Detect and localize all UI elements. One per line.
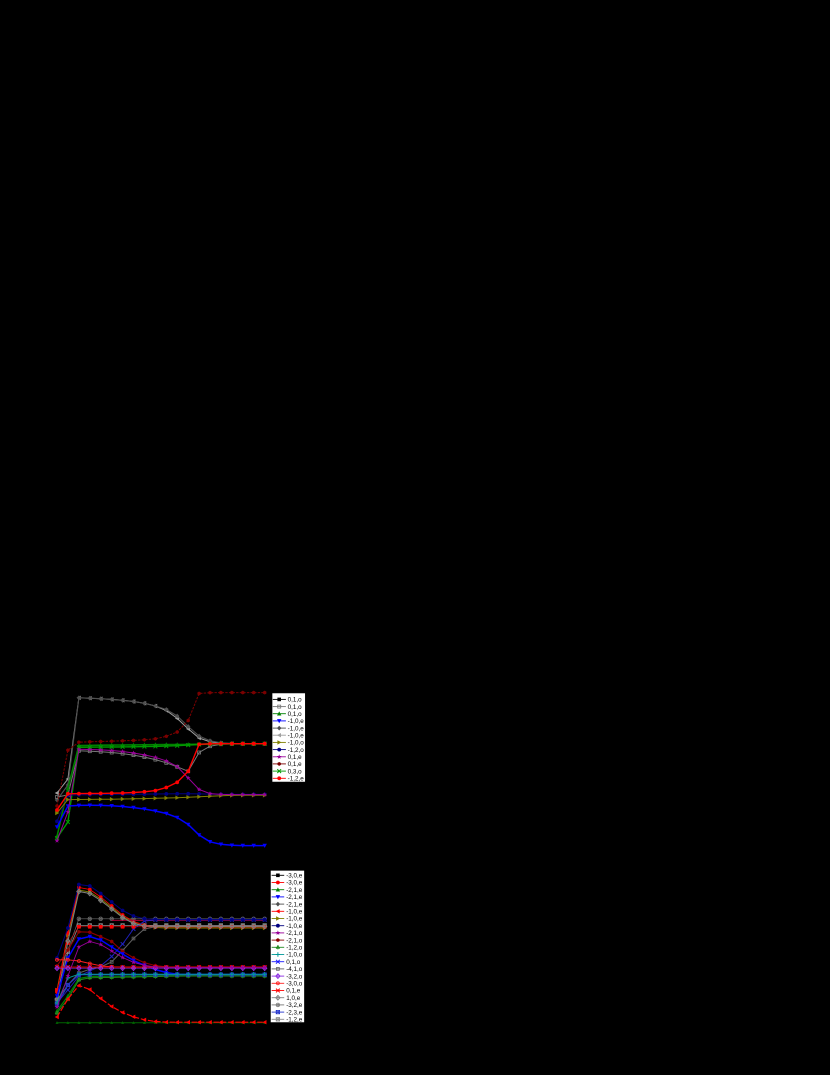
svg-text:-3,0,e: -3,0,e [286,873,303,880]
curve -1,0,e silver left triangle [55,696,267,796]
chart1 legend entry 0,1,o [273,711,302,718]
chart2 legend entry -2,1,o [272,937,303,944]
curve 0,1,o blue x [55,918,267,1005]
svg-text:-1,0,e: -1,0,e [288,725,305,732]
svg-text:0,1,o: 0,1,o [286,959,301,966]
chart1 legend entry -1,2,e [273,776,304,783]
curve -1,0,e olive right triangle c2 [55,888,267,992]
curve 0,1,e red x c2 [55,965,267,969]
svg-text:-1,2,o: -1,2,o [286,945,303,952]
chart1 legend entry -1,0,e [273,718,304,725]
curve -3,0,e red circle c2 [55,886,267,994]
svg-text:-2,1,o: -2,1,o [286,937,303,944]
svg-text:0,3,o: 0,3,o [288,768,303,775]
chart2 legend entry -1,2,e [272,1017,303,1024]
chart1 legend box [272,693,305,782]
curve -2,3,e blue square-x [55,973,266,1007]
chart2 legend entry -2,1,e [272,887,303,894]
svg-text:0,1,o: 0,1,o [288,697,303,704]
svg-text:-2,1,e: -2,1,e [286,901,303,908]
curve -3,0,e red squares [55,925,266,992]
svg-text:-2,1,o: -2,1,o [286,930,303,937]
chart2 legend entry 1,0,e [272,995,301,1002]
chart2 legend entry -2,1,o [272,930,303,937]
curve -3,2,o violet diamond-plus [55,966,267,971]
curve 0,1,o green triangle up [55,742,267,839]
chart1 legend entry -1,0,e [273,725,304,732]
svg-text:-1,0,e: -1,0,e [288,718,305,725]
chart2 legend entry -1,0,e [272,916,303,923]
chart2 legend entry 0,1,e [272,988,301,995]
chart2 legend entry -3,2,e [272,1002,303,1009]
svg-text:-3,2,e: -3,2,e [286,1002,303,1009]
curve -2,1,o purple star c2 [55,939,267,1009]
curve -4,1,o gray square-dot [56,925,267,1001]
curve 0,1,e wine hexagon [55,691,266,808]
curve -1,2,o green club [55,974,267,1015]
svg-text:0,1,e: 0,1,e [288,754,303,761]
curve -1,0,o olive right triangle [55,793,267,815]
curve 0,1,e purple star [55,747,267,843]
curve 0,1,o gray open square [56,742,267,798]
chart1 legend entry 0,1,o [273,697,302,704]
svg-text:-1,0,e: -1,0,e [286,916,303,923]
svg-text:-3,0,e: -3,0,e [286,880,303,887]
curve -1,0,e navy circle c2 [55,883,267,960]
curve -2,1,e green triangle up c2 [55,973,267,1013]
svg-text:0,1,o: 0,1,o [288,711,303,718]
svg-text:-3,2,o: -3,2,o [286,973,303,980]
chart2 legend entry -1,0,e [272,923,303,930]
svg-text:-4,1,o: -4,1,o [286,966,303,973]
curve -1,0,o teal plus [55,972,267,1005]
svg-text:0,1,e: 0,1,e [286,988,301,995]
curve -1,2,o navy circle [55,792,267,823]
chart2 legend entry -3,0,o [272,981,303,988]
chart2 legend entry -3,0,e [272,873,303,880]
chart1 legend entry 0,1,e [273,761,302,768]
chart2 legend entry -2,1,e [272,901,303,908]
chart2 legend entry -3,2,o [272,973,303,980]
svg-text:-2,1,e: -2,1,e [286,887,303,894]
svg-text:-2,3,e: -2,3,e [286,1009,303,1016]
curve -1,0,e blue triangle down [55,804,267,848]
svg-text:-1,0,e: -1,0,e [286,923,303,930]
chart2 legend entry -1,0,o [272,952,303,959]
curve -2,1,o wine hexagon c2 [55,930,266,969]
svg-text:-3,0,o: -3,0,o [286,981,303,988]
svg-text:-1,2,e: -1,2,e [288,776,305,783]
chart1 legend entry 0,1,o [273,704,302,711]
chart1 legend entry 0,3,o [273,768,302,775]
svg-text:-1,0,e: -1,0,e [288,733,305,740]
curve -1,0,e red left triangle [55,983,267,1024]
chart1 legend entry -1,2,o [273,747,304,754]
chart1 legend entry -1,0,e [273,733,304,740]
chart2 legend entry -1,2,o [272,945,303,952]
chart2 legend box [270,870,304,1022]
chart1 legend entry -1,0,o [273,740,304,747]
svg-text:1,0,e: 1,0,e [286,995,301,1002]
chart2 legend entry -1,0,e [272,909,303,916]
curve -1,2,e gray square-x [55,924,266,1004]
curve -2,1,e dark green triangles [56,1021,267,1024]
chart2 legend entry -2,1,e [272,894,303,901]
curve crimson line under A [112,919,265,921]
curve -3,2,e gray circle-x [55,917,266,1002]
curve -1,0,e dark gray diamond [55,695,267,802]
curve 0,3,o green x [55,742,267,840]
svg-text:-1,2,o: -1,2,o [288,747,305,754]
chart2 legend entry -3,0,e [272,880,303,887]
svg-text:-1,0,o: -1,0,o [288,740,305,747]
chart2 legend entry 0,1,o [272,959,301,966]
curve -3,0,o red open circle [56,958,267,968]
svg-text:0,1,o: 0,1,o [288,704,303,711]
curve -2,1,e blue triangle down c2 [55,935,267,999]
svg-text:-1,2,e: -1,2,e [286,1017,303,1024]
curve 1,0,e gray diamond-plus [55,889,267,1001]
chart2 legend entry -4,1,o [272,966,303,973]
svg-text:-1,0,o: -1,0,o [286,952,303,959]
svg-text:-1,0,e: -1,0,e [286,909,303,916]
chart1 legend entry 0,1,e [273,754,302,761]
curve -1,2,e red circle [55,742,267,812]
svg-text:-2,1,e: -2,1,e [286,894,303,901]
svg-text:0,1,e: 0,1,e [288,761,303,768]
chart2 legend entry -2,3,e [272,1009,303,1016]
